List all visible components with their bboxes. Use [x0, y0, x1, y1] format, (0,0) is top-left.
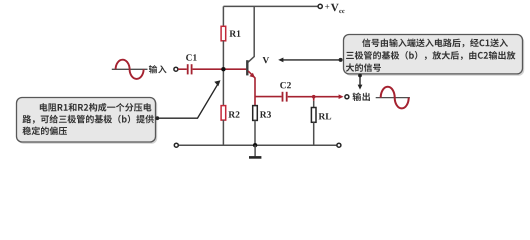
- wire: emitter down to C2 node and R3: [254, 78, 256, 106]
- label R1: [230, 30, 241, 36]
- wire: RL to bottom rail: [313, 122, 315, 145]
- output terminal circle: [345, 95, 349, 99]
- wire: R2 to bottom rail: [222, 120, 224, 145]
- wire: emitter node to C2: [255, 96, 282, 98]
- capacitor C1: [187, 64, 193, 74]
- wire: R1 to base node: [222, 41, 224, 106]
- bottom-left terminal circle: [174, 143, 178, 147]
- node: ground junction dot: [253, 143, 257, 147]
- output sine wave: [376, 87, 410, 109]
- label RL: [319, 113, 332, 119]
- resistor R3: [253, 106, 258, 121]
- callout text line 3: 稳定的偏压: [23, 127, 68, 136]
- connector: right box to transistor arrow: [278, 58, 342, 63]
- capacitor C2: [282, 92, 288, 102]
- label R2: [229, 111, 240, 117]
- label +Vcc: [325, 4, 345, 13]
- callout box: signal path note: [345, 36, 524, 75]
- wire: junction to RL: [313, 97, 315, 101]
- resistor R1: [221, 26, 226, 41]
- node: RL junction dot: [312, 95, 316, 99]
- wire: collector branch: [248, 6, 254, 62]
- wire: top +Vcc rail: [223, 5, 317, 7]
- bottom-right terminal circle: [337, 143, 341, 147]
- wire: C2 to output with arrow: [288, 94, 344, 99]
- callout text line 2: 三极管的基极（b），放大后，由C2输出放: [346, 51, 515, 60]
- connector: left box to base node with arrow: [155, 80, 220, 120]
- callout text line 1: 电阻R1和R2构成一个分压电: [40, 103, 152, 112]
- input terminal circle: [174, 67, 178, 71]
- callout text line 2: 路，可给三极管的基极（b）提供: [23, 115, 154, 124]
- label C1: [186, 54, 197, 60]
- callout box: R1/R2 divider note: [18, 99, 157, 144]
- label 输出: [353, 93, 370, 102]
- wire: R1 branch from top rail: [222, 6, 224, 26]
- label R3: [260, 111, 271, 117]
- wire: bottom rail: [178, 144, 336, 146]
- resistor R2: [221, 106, 226, 121]
- ground symbol: [249, 145, 261, 157]
- callout text line 3: 大的信号: [346, 63, 381, 72]
- label C2: [280, 82, 291, 88]
- +Vcc supply terminal: [318, 4, 322, 8]
- label V: [263, 57, 270, 63]
- wire: input to C1: [178, 68, 187, 70]
- wire: R3 to ground node: [254, 120, 256, 145]
- connector: right box down to output arrow: [358, 74, 363, 90]
- callout text line 1: 信号由输入端送入电路后，经C1送入: [362, 39, 508, 48]
- node: base junction dot: [221, 67, 225, 71]
- input sine wave: [112, 60, 148, 79]
- resistor RL: [311, 108, 316, 123]
- transistor V (NPN): [246, 60, 255, 78]
- label 输入: [149, 65, 167, 73]
- wire: C1 to base: [193, 68, 247, 70]
